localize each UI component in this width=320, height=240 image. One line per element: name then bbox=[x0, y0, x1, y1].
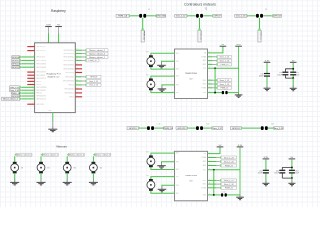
svg-text:PG1: PG1 bbox=[176, 61, 179, 63]
svg-text:Moteur_vibrant_1: Moteur_vibrant_1 bbox=[43, 153, 58, 156]
svg-text:25: 25 bbox=[76, 67, 78, 69]
svg-text:PWM_14: PWM_14 bbox=[221, 88, 229, 90]
svg-text:GPIO4: GPIO4 bbox=[69, 96, 74, 98]
svg-text:5mv_1.12: 5mv_1.12 bbox=[176, 16, 186, 18]
svg-text:3.3V: 3.3V bbox=[238, 145, 243, 147]
svg-text:Sens_1_16: Sens_1_16 bbox=[220, 84, 230, 86]
svg-text:GPIO8(CE0): GPIO8(CE0) bbox=[65, 72, 74, 74]
svg-text:PWM_13: PWM_13 bbox=[221, 64, 229, 66]
svg-text:3.3V: 3.3V bbox=[46, 25, 51, 27]
svg-text:100nF: 100nF bbox=[259, 76, 264, 78]
svg-text:5mv_1.12: 5mv_1.12 bbox=[89, 85, 99, 87]
svg-text:GPIO12(PWM0): GPIO12(PWM0) bbox=[63, 81, 74, 83]
svg-text:5mv_1.19: 5mv_1.19 bbox=[274, 128, 284, 130]
svg-text:M4: M4 bbox=[100, 168, 102, 170]
svg-text:BO1: BO1 bbox=[176, 92, 179, 94]
svg-text:Sens_1_24: Sens_1_24 bbox=[224, 161, 234, 163]
svg-text:3.3V: 3.3V bbox=[236, 44, 241, 46]
svg-text:GPIO22: GPIO22 bbox=[12, 67, 21, 69]
svg-text:GPIO17/GEN0: GPIO17/GEN0 bbox=[36, 60, 46, 62]
svg-text:PWM_1C: PWM_1C bbox=[259, 31, 261, 40]
svg-text:PWM_12: PWM_12 bbox=[89, 60, 98, 62]
svg-text:29: 29 bbox=[76, 83, 78, 85]
svg-text:22: 22 bbox=[76, 55, 78, 57]
svg-text:Moteur_vibrant_1: Moteur_vibrant_1 bbox=[89, 56, 105, 59]
svg-text:M1: M1 bbox=[146, 51, 148, 53]
svg-text:5mv_1.17: 5mv_1.17 bbox=[213, 128, 223, 130]
svg-text:GPIO23(GEN4): GPIO23(GEN4) bbox=[63, 60, 74, 62]
svg-text:3.3V: 3.3V bbox=[264, 157, 269, 159]
svg-text:BO2: BO2 bbox=[176, 76, 179, 78]
svg-text:C5: C5 bbox=[148, 9, 150, 11]
svg-text:GPIO6: GPIO6 bbox=[36, 84, 41, 86]
svg-text:GPIO0/ID_SD: GPIO0/ID_SD bbox=[36, 46, 46, 48]
svg-text:GPIO19: GPIO19 bbox=[129, 128, 138, 130]
svg-text:GPIO17: GPIO17 bbox=[12, 60, 21, 62]
svg-text:C11: C11 bbox=[158, 124, 161, 126]
svg-text:PG2: PG2 bbox=[176, 85, 179, 87]
svg-text:BIN1: BIN1 bbox=[203, 80, 207, 82]
svg-text:M2: M2 bbox=[146, 175, 148, 177]
svg-text:BIN1: BIN1 bbox=[203, 180, 207, 182]
svg-text:Sens_1_13: Sens_1_13 bbox=[220, 57, 230, 59]
svg-text:Moteur_vibrant_0: Moteur_vibrant_0 bbox=[17, 153, 32, 156]
svg-text:GPIO08: GPIO08 bbox=[12, 57, 21, 59]
svg-text:GPIO22/GEN3: GPIO22/GEN3 bbox=[36, 67, 46, 69]
svg-text:M1: M1 bbox=[146, 152, 148, 154]
svg-text:GPIO26: GPIO26 bbox=[36, 93, 42, 95]
svg-text:GPIO19/MISO: GPIO19/MISO bbox=[36, 90, 47, 92]
svg-text:Controleurs moteurs: Controleurs moteurs bbox=[184, 3, 216, 7]
svg-text:PWMB: PWMB bbox=[201, 87, 206, 89]
svg-text:1uF: 1uF bbox=[297, 74, 300, 76]
svg-text:31: 31 bbox=[76, 91, 78, 93]
svg-text:Sens_1_14: Sens_1_14 bbox=[220, 60, 230, 62]
svg-text:5mv_1.13: 5mv_1.13 bbox=[236, 16, 246, 18]
svg-text:3.3V: 3.3V bbox=[265, 60, 270, 62]
svg-text:GPIO7(CE1): GPIO7(CE1) bbox=[65, 76, 74, 78]
svg-text:GPIO7/CE1: GPIO7/CE1 bbox=[36, 104, 44, 106]
svg-text:PWM_1B: PWM_1B bbox=[199, 31, 201, 40]
svg-text:TB6612FNG: TB6612FNG bbox=[185, 73, 197, 75]
svg-text:Raspberry: Raspberry bbox=[51, 9, 66, 13]
svg-text:GPIO9/MISO: GPIO9/MISO bbox=[36, 75, 46, 77]
svg-text:PWM_1A: PWM_1A bbox=[142, 31, 145, 40]
svg-text:GPIO13/PWM1: GPIO13/PWM1 bbox=[36, 87, 47, 89]
svg-text:5mv_1.11: 5mv_1.11 bbox=[89, 81, 99, 83]
svg-text:GPIO17: GPIO17 bbox=[273, 16, 282, 18]
svg-text:Moteur_vibrant_4: Moteur_vibrant_4 bbox=[3, 98, 18, 101]
svg-text:24: 24 bbox=[76, 63, 78, 65]
svg-text:GROUND: GROUND bbox=[156, 16, 166, 18]
svg-text:Moteur_vibrant_2: Moteur_vibrant_2 bbox=[89, 49, 105, 52]
svg-text:GND: GND bbox=[49, 110, 52, 112]
svg-text:GPIO7: GPIO7 bbox=[214, 16, 221, 18]
svg-text:Raspberry Pi 3: Raspberry Pi 3 bbox=[47, 72, 62, 75]
svg-text:M2: M2 bbox=[146, 75, 148, 77]
svg-text:Model B v1.2: Model B v1.2 bbox=[48, 76, 61, 78]
svg-text:Moteur_vibrant_3: Moteur_vibrant_3 bbox=[96, 153, 111, 156]
svg-text:27: 27 bbox=[76, 75, 78, 77]
svg-text:PG1: PG1 bbox=[176, 161, 179, 163]
svg-text:GPIO27/GEN2: GPIO27/GEN2 bbox=[36, 63, 46, 65]
svg-text:BIN2: BIN2 bbox=[203, 184, 207, 186]
svg-text:C12: C12 bbox=[206, 124, 209, 126]
svg-text:Sens_1_25: Sens_1_25 bbox=[224, 180, 234, 182]
svg-text:C6: C6 bbox=[205, 9, 207, 11]
svg-text:30: 30 bbox=[76, 87, 78, 89]
svg-text:C13: C13 bbox=[271, 124, 274, 126]
svg-text:BO2: BO2 bbox=[176, 176, 179, 178]
svg-text:20: 20 bbox=[76, 49, 78, 51]
svg-text:U02: U02 bbox=[189, 78, 192, 80]
svg-text:GPIO21/SCLK: GPIO21/SCLK bbox=[36, 99, 46, 101]
svg-text:100nF: 100nF bbox=[277, 74, 282, 76]
svg-text:GPIO5: GPIO5 bbox=[36, 81, 41, 83]
svg-text:GPIO10/MOSI: GPIO10/MOSI bbox=[36, 72, 46, 74]
svg-text:PWM_1B: PWM_1B bbox=[164, 128, 174, 130]
svg-text:32: 32 bbox=[76, 95, 78, 97]
svg-text:BIN2: BIN2 bbox=[203, 84, 207, 86]
svg-text:GPIO1/ID_SC: GPIO1/ID_SC bbox=[36, 50, 46, 52]
svg-text:Vibreurs: Vibreurs bbox=[56, 144, 67, 148]
svg-text:100nF: 100nF bbox=[274, 173, 279, 175]
svg-text:Sens_1_23: Sens_1_23 bbox=[224, 157, 234, 159]
svg-text:PWM_23: PWM_23 bbox=[225, 165, 233, 167]
svg-text:GPIO20/MOSI: GPIO20/MOSI bbox=[36, 96, 46, 98]
svg-text:PWMB: PWMB bbox=[201, 187, 206, 189]
svg-text:GPIO25(GEN6): GPIO25(GEN6) bbox=[63, 68, 74, 70]
svg-text:GPIO15(RXD0): GPIO15(RXD0) bbox=[63, 53, 74, 55]
svg-text:GPIO23: GPIO23 bbox=[178, 128, 187, 130]
svg-text:BO1: BO1 bbox=[176, 193, 179, 195]
svg-text:26: 26 bbox=[76, 71, 78, 73]
svg-text:PG2: PG2 bbox=[176, 185, 179, 187]
svg-text:M1: M1 bbox=[21, 168, 23, 170]
svg-text:GPIO14(TXD0): GPIO14(TXD0) bbox=[64, 50, 75, 52]
svg-text:GPIO24(GEN5): GPIO24(GEN5) bbox=[63, 65, 74, 67]
svg-text:Sens_1_26: Sens_1_26 bbox=[224, 184, 234, 186]
svg-text:PWM_24: PWM_24 bbox=[225, 188, 233, 190]
svg-text:23: 23 bbox=[76, 59, 78, 61]
svg-text:Moteur_vibrant_3: Moteur_vibrant_3 bbox=[89, 52, 105, 55]
svg-text:M2: M2 bbox=[47, 168, 49, 170]
svg-text:Moteur_vibrant_2: Moteur_vibrant_2 bbox=[69, 153, 84, 156]
svg-text:GPIO18: GPIO18 bbox=[90, 77, 98, 79]
svg-text:U02: U02 bbox=[189, 181, 192, 183]
svg-text:GPIO27: GPIO27 bbox=[12, 64, 21, 66]
svg-text:Sens_1_15: Sens_1_15 bbox=[220, 80, 230, 82]
svg-text:100nF: 100nF bbox=[258, 173, 263, 175]
svg-text:GPIO18(GEN1): GPIO18(GEN1) bbox=[63, 57, 74, 59]
svg-text:GPIO24: GPIO24 bbox=[232, 128, 241, 130]
svg-text:C17: C17 bbox=[222, 191, 225, 193]
svg-text:TB6612FNG: TB6612FNG bbox=[185, 175, 197, 177]
svg-text:GPIO4/GCLK: GPIO4/GCLK bbox=[36, 57, 45, 59]
svg-text:GPIO11/SCLK: GPIO11/SCLK bbox=[36, 78, 46, 80]
svg-text:10uF: 10uF bbox=[295, 173, 299, 175]
svg-text:M3: M3 bbox=[74, 168, 76, 170]
svg-text:28: 28 bbox=[76, 79, 78, 81]
svg-text:PWM_1A: PWM_1A bbox=[118, 15, 128, 18]
svg-text:21: 21 bbox=[76, 52, 78, 54]
svg-text:GPIO16: GPIO16 bbox=[68, 85, 74, 87]
svg-text:C9: C9 bbox=[265, 9, 267, 11]
svg-text:GPIO3(SCL1): GPIO3(SCL1) bbox=[64, 93, 74, 95]
